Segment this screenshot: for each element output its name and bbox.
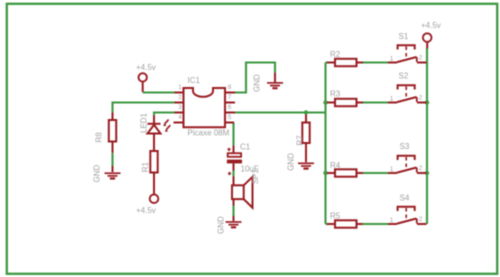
svg-text:R1: R1: [141, 162, 150, 173]
svg-text:R4: R4: [330, 161, 341, 170]
svg-text:3: 3: [178, 104, 182, 111]
svg-text:1: 1: [390, 96, 394, 103]
svg-text:C1: C1: [240, 142, 251, 151]
svg-text:+4.5v: +4.5v: [136, 206, 156, 215]
svg-text:1: 1: [390, 56, 394, 63]
svg-text:1: 1: [390, 166, 394, 173]
svg-text:GND: GND: [253, 74, 262, 92]
svg-text:IC1: IC1: [188, 76, 201, 85]
svg-text:1: 1: [178, 84, 182, 91]
svg-text:S2: S2: [399, 72, 409, 81]
svg-text:7: 7: [228, 94, 232, 101]
svg-text:R3: R3: [330, 90, 341, 99]
svg-text:S1: S1: [399, 32, 409, 41]
svg-text:+4.5v: +4.5v: [421, 21, 441, 30]
svg-text:2: 2: [419, 216, 423, 223]
svg-text:GND: GND: [216, 216, 225, 234]
svg-text:S4: S4: [400, 194, 410, 203]
svg-text:2: 2: [178, 94, 182, 101]
svg-text:8: 8: [228, 84, 232, 91]
svg-text:R2: R2: [330, 50, 341, 59]
svg-text:2: 2: [419, 165, 423, 172]
svg-text:GND: GND: [92, 165, 101, 183]
svg-text:LED1: LED1: [140, 112, 149, 133]
svg-text:R5: R5: [330, 212, 341, 221]
svg-text:S3: S3: [400, 142, 410, 151]
svg-text:R7: R7: [296, 135, 305, 146]
svg-text:SP1: SP1: [251, 169, 260, 185]
svg-text:1: 1: [390, 217, 394, 224]
svg-text:4: 4: [178, 114, 182, 121]
svg-text:+4.5v: +4.5v: [136, 63, 156, 72]
svg-text:5: 5: [228, 114, 232, 121]
svg-text:2: 2: [419, 54, 423, 61]
svg-text:6: 6: [228, 104, 232, 111]
svg-text:GND: GND: [287, 153, 296, 171]
svg-text:R8: R8: [95, 132, 104, 143]
svg-text:2: 2: [419, 94, 423, 101]
svg-text:Picaxe 08M: Picaxe 08M: [188, 129, 230, 138]
